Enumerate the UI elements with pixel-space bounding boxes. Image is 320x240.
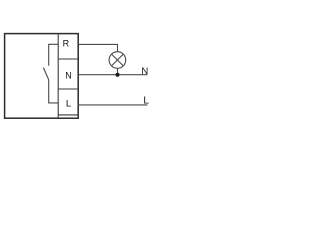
divider between terminal R and N [58, 58, 78, 60]
svg-text:R: R [63, 39, 70, 49]
device box U1 (sensor/switch unit outline) [5, 34, 79, 119]
divider between terminal N and L [58, 88, 78, 90]
switch S1 blade [43, 68, 48, 80]
terminal block left partition [57, 34, 59, 119]
svg-text:N: N [65, 71, 72, 81]
switch S1 upper terminal wire [49, 44, 59, 65]
svg-text:L: L [143, 95, 149, 106]
lamp E1 cross stroke 1 [112, 54, 124, 66]
svg-text:N: N [141, 66, 148, 77]
wire from terminal R to lamp [78, 44, 117, 51]
wire from lamp to node on N line [117, 68, 119, 74]
svg-text:L: L [66, 98, 71, 109]
lamp E1 cross stroke 2 [112, 54, 124, 66]
junction node on net N [116, 73, 120, 77]
terminal block bottom edge [58, 114, 78, 116]
lamp E1 circle [109, 52, 126, 69]
switch S1 lower terminal wire [49, 80, 59, 103]
wire net L [78, 104, 147, 106]
wire net N [78, 74, 147, 76]
